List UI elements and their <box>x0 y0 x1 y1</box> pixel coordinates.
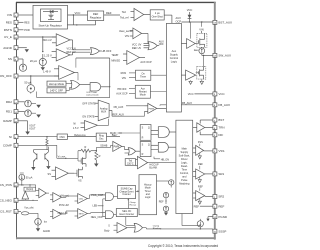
svg-text:20 µA: 20 µA <box>30 59 37 63</box>
svg-text:VCC: VCC <box>75 11 81 15</box>
buffer B2 (SR1 output) <box>193 169 205 179</box>
svg-text:(anti-restart): (anti-restart) <box>87 94 99 97</box>
svg-text:Logic: Logic <box>171 60 178 64</box>
pin VCC (right 3) <box>188 92 226 96</box>
ground arrow diff pair right <box>46 166 50 169</box>
AND gate G9 (neg OCP) <box>101 211 116 219</box>
ground arrow diff pair left <box>31 167 35 170</box>
svg-text:PWM: PWM <box>114 146 120 148</box>
wire Bias output <box>107 134 121 137</box>
svg-text:S: S <box>108 226 110 228</box>
ground arrow RD2 <box>36 105 41 108</box>
pin ON_OFF (left 7) <box>0 74 59 79</box>
svg-text:Control: Control <box>170 56 179 60</box>
wire ON_OFF junction into comparator <box>30 75 54 76</box>
svg-text:Supply: Supply <box>170 53 179 57</box>
svg-text:RSTN: RSTN <box>4 28 12 32</box>
wire SS/HB to PWM comparator <box>96 145 113 151</box>
comparator U2 REF-UV (1.25 V ref) <box>44 49 70 61</box>
svg-text:RES: RES <box>24 20 30 24</box>
ground symbol under MOSFET M2 <box>200 79 203 84</box>
svg-text:Regulator: Regulator <box>90 15 102 19</box>
pass transistor Q inside start-up regulator <box>48 12 54 20</box>
OR gate G4 (AUX OFF) <box>132 40 164 50</box>
wire SW_AUX net <box>202 54 213 67</box>
wire counter link with clamp hiccup label <box>127 199 136 209</box>
AND gate G6 <box>151 142 176 152</box>
current source Iaux <box>194 47 205 53</box>
MOSFET M4 at gm amp output <box>74 167 82 183</box>
svg-text:One-Shot: One-Shot <box>152 14 163 18</box>
flip-flop FF1 <box>140 125 151 141</box>
block NEG OC Event Counter <box>116 209 137 217</box>
wire OCP gates to counters <box>116 197 117 215</box>
wire diff pair bases <box>33 145 48 149</box>
pin RES (left 2) <box>6 20 30 25</box>
pin UVLO (left 4) <box>4 35 18 40</box>
ground symbol under buffer B3 <box>198 199 201 205</box>
driver B (aux low-side) <box>181 70 195 80</box>
pin RD1 (left 9) <box>6 110 25 115</box>
svg-text:Start-Up Regulator: Start-Up Regulator <box>39 24 62 28</box>
svg-text:FB_AUX: FB_AUX <box>114 106 124 109</box>
pin VSS (right 8) <box>204 149 225 153</box>
block Ring Oscillator <box>96 133 106 141</box>
svg-text:CS_NEG: CS_NEG <box>0 199 13 203</box>
pin BST_AUX (right 1) <box>213 20 232 24</box>
ground symbol under driver B <box>189 80 192 84</box>
svg-text:POS_OCP: POS_OCP <box>91 194 103 197</box>
svg-text:VCC UV: VCC UV <box>132 44 142 47</box>
svg-text:R: R <box>142 137 144 140</box>
OR gate G10 clamp blanking <box>127 223 146 232</box>
current source I3 50uA on ON_OFF <box>24 76 34 94</box>
amp A3 (up triangle) <box>22 185 29 200</box>
pin RAMP (left 10) <box>3 119 27 124</box>
comparator U8 PWM main <box>113 141 125 151</box>
wire BST_AUX net <box>181 21 212 38</box>
svg-text:VIN: VIN <box>199 27 203 31</box>
wire mux output REF_AUX <box>109 110 144 116</box>
net label REF between sources <box>159 198 167 204</box>
MOSFET M1 aux high-side (dashed box) <box>197 33 207 47</box>
comparator U5 Vaux sense <box>119 28 148 44</box>
pin FB_AUX (right 4) <box>160 101 230 107</box>
svg-text:Matching: Matching <box>179 183 190 186</box>
net label LEB <box>93 199 104 217</box>
pin RSTN (left 3) <box>4 28 30 33</box>
comparator U11 CS neg threshold <box>50 209 62 218</box>
svg-text:ON STATE: ON STATE <box>82 116 94 119</box>
AND gate G3 with UVLO arm note <box>87 83 111 97</box>
driver A (aux high-side) <box>181 39 197 49</box>
svg-text:PGND: PGND <box>218 215 228 219</box>
current source I6 Ics <box>35 213 48 225</box>
pin CS_POS (left 13) <box>0 183 24 188</box>
wire Vcomp node <box>57 145 78 161</box>
svg-text:REF: REF <box>218 204 224 208</box>
current source I9 <box>163 206 168 211</box>
pin DIF (right 7) <box>200 132 223 138</box>
svg-text:Vaux_sense: Vaux_sense <box>119 30 133 33</box>
svg-text:140°C OFF: 140°C OFF <box>50 89 64 93</box>
pin BST (right 5) <box>200 118 224 124</box>
pin REF (right 11) <box>194 204 225 208</box>
svg-text:RAMP: RAMP <box>3 119 12 123</box>
svg-text:REF: REF <box>194 204 200 208</box>
driver C (main half-bridge) <box>193 123 205 132</box>
block Tsd 150C threshold <box>125 159 135 166</box>
comparator U4 thermal (Tsd) <box>120 8 150 20</box>
svg-text:ON_OFF: ON_OFF <box>0 74 12 78</box>
comparator U12 CBL <box>75 194 106 204</box>
wire UVLO to comparator bus <box>18 36 56 52</box>
svg-text:SS: SS <box>8 57 12 61</box>
OR gate G7 <box>125 148 141 155</box>
comparator U10 CS pos threshold <box>50 193 75 202</box>
AND gate G5 <box>151 127 176 138</box>
svg-text:1.5 V: 1.5 V <box>73 127 79 130</box>
comparator U6 TEMP <box>111 51 152 65</box>
transistor Q1 (diff pair left) <box>33 150 37 167</box>
pin VIN (left 1) <box>7 13 18 18</box>
ground arrow RD1 <box>36 115 41 118</box>
amp A1 NI buffer <box>73 119 109 130</box>
svg-text:VIN: VIN <box>122 77 126 80</box>
svg-text:Timer: Timer <box>140 76 146 79</box>
wire start-up feedback <box>67 14 96 25</box>
svg-text:840 mV: 840 mV <box>42 38 51 42</box>
svg-text:1.49 V: 1.49 V <box>43 70 51 74</box>
pin PGND (right 12) <box>208 215 228 219</box>
inner pass-device box of start-up regulator <box>41 9 62 22</box>
svg-text:MAIN_ON: MAIN_ON <box>110 132 122 135</box>
svg-text:FB_AUX: FB_AUX <box>182 101 192 105</box>
wire CS_NEG with offset oval <box>21 200 38 215</box>
resistor R2 (to ground vertical) <box>95 150 101 164</box>
svg-text:Q: Q <box>148 144 150 147</box>
svg-text:NEG_OCP: NEG_OCP <box>91 216 104 219</box>
svg-text:AGND: AGND <box>3 46 13 50</box>
wire one-shot output AUX OCP <box>164 15 181 23</box>
wire comparator outputs to OR gate (VCC UV / REF UV) <box>67 40 91 55</box>
svg-text:REF: REF <box>198 163 203 166</box>
comparator U7 PWM aux <box>114 103 167 116</box>
svg-text:REF UV: REF UV <box>132 47 142 50</box>
svg-text:NI: NI <box>73 122 76 125</box>
svg-text:TEMP: TEMP <box>111 54 118 57</box>
wire REF output <box>104 11 120 15</box>
svg-text:OCP: OCP <box>176 19 182 23</box>
svg-text:HB OFF: HB OFF <box>102 49 112 53</box>
pin RD2 (left 8) <box>6 100 25 105</box>
svg-text:NEG: NEG <box>79 213 84 215</box>
svg-text:PWM: PWM <box>149 108 155 110</box>
svg-text:VCC: VCC <box>218 92 225 96</box>
svg-text:Blanking: Blanking <box>153 228 162 230</box>
svg-text:Vcs_ofst: Vcs_ofst <box>24 207 34 210</box>
current source I8 <box>163 192 168 197</box>
svg-text:Charge Event: Charge Event <box>119 190 133 193</box>
wire NEG OC counter to clamp OR gate <box>126 217 135 226</box>
buffer B3 (SR2 output) <box>193 191 205 201</box>
svg-text:REF_AUX: REF_AUX <box>112 114 124 117</box>
svg-text:DIF: DIF <box>218 133 223 137</box>
svg-text:Mode: Mode <box>140 93 147 96</box>
pin AGND (left 5) <box>3 46 27 51</box>
svg-text:SS/HB Cap: SS/HB Cap <box>121 188 133 190</box>
svg-text:COMP: COMP <box>3 144 12 148</box>
svg-text:CS_POS: CS_POS <box>0 183 12 187</box>
svg-text:IOUT: IOUT <box>30 127 36 130</box>
wire OFF STATE into analog mux <box>82 102 98 105</box>
svg-text:SS/HB: SS/HB <box>100 145 108 148</box>
current source I2 with ground <box>39 54 46 70</box>
block Rs(int) <box>24 187 36 191</box>
svg-text:UV_E: UV_E <box>4 35 12 39</box>
svg-text:REF: REF <box>198 185 203 188</box>
svg-text:BST: BST <box>218 118 224 122</box>
svg-text:Ics: Ics <box>44 220 48 223</box>
svg-text:HB_ON: HB_ON <box>161 158 170 161</box>
current source I7 <box>157 180 174 188</box>
wire On Timer output to main block <box>151 74 176 76</box>
pin CS_NEG (left 14) <box>0 198 24 203</box>
svg-text:NI: NI <box>9 135 12 139</box>
svg-text:R: R <box>85 146 87 149</box>
svg-text:LEB: LEB <box>93 205 98 208</box>
OR gate G1 (HB OFF) <box>91 48 112 55</box>
block Aux Restart Mode <box>116 85 166 98</box>
pin SSSP (right 13) <box>213 229 227 233</box>
wire Reference between oscillator blocks <box>67 134 96 137</box>
pin SR2 (right 10) <box>205 195 225 199</box>
wire VIN to aux high-side FET <box>199 22 203 33</box>
block 1us One-Shot <box>150 10 164 20</box>
pin COMP (left 12) <box>3 143 57 148</box>
ground arrow at PGND pin <box>206 217 209 222</box>
svg-text:1.25 V: 1.25 V <box>44 53 52 57</box>
analog MUX <box>98 100 109 121</box>
MOSFET M2 aux low-side <box>196 66 206 79</box>
svg-text:VCC: VCC <box>187 8 193 12</box>
wire main block bottom to SSSP <box>182 214 200 226</box>
svg-text:REF UV: REF UV <box>67 51 77 54</box>
transistor Q2 (diff pair right) <box>37 150 49 166</box>
svg-text:VS: VS <box>78 179 82 182</box>
pin TRN (right 6) <box>205 126 225 130</box>
amp A4 AVG <box>36 188 49 197</box>
svg-text:Hiccup: Hiccup <box>130 204 137 206</box>
svg-text:Hiccup Mode: Hiccup Mode <box>49 82 65 86</box>
VCC bootstrap diode to BST_AUX <box>187 8 193 22</box>
svg-text:50 µA: 50 µA <box>24 81 31 85</box>
svg-text:VCC: VCC <box>188 92 194 96</box>
svg-text:VIN: VIN <box>7 13 12 17</box>
pin SR1 (right 9) <box>205 172 225 176</box>
svg-text:REF: REF <box>106 11 112 15</box>
current source RD2 <box>25 100 36 107</box>
svg-text:Counter: Counter <box>122 193 130 196</box>
svg-text:VCOMP: VCOMP <box>58 155 66 158</box>
wire enable-logic routing <box>37 58 110 98</box>
svg-text:Body: Body <box>104 230 110 232</box>
svg-text:SR1: SR1 <box>218 172 224 176</box>
svg-text:Tsd_ref: Tsd_ref <box>120 16 129 20</box>
svg-text:BST_AUX: BST_AUX <box>218 21 232 25</box>
svg-text:Event Counter: Event Counter <box>119 213 134 216</box>
svg-text:CS_RST: CS_RST <box>0 210 12 214</box>
wire VIN to Start-Up Regulator <box>18 14 33 16</box>
chip outline border <box>16 2 216 240</box>
svg-text:RON: RON <box>121 72 127 75</box>
svg-text:AUX OCP: AUX OCP <box>116 93 128 96</box>
svg-text:NEG OC: NEG OC <box>122 211 131 213</box>
svg-text:UVLO arm: UVLO arm <box>87 91 98 94</box>
ground arrow with AGND label <box>36 225 51 233</box>
net label FSS <box>198 141 203 146</box>
comparator U3 enable (1.49 V ref) <box>43 66 74 80</box>
block Hiccup Mode Timer and Logic <box>139 175 157 215</box>
svg-text:VSS: VSS <box>218 149 224 153</box>
block Aux Supply Control Logic <box>166 23 181 112</box>
current source I4 near SSSP <box>197 219 203 227</box>
svg-text:OFF: OFF <box>159 43 164 46</box>
svg-text:MUX: MUX <box>101 111 107 114</box>
svg-text:POS LIM: POS LIM <box>59 204 69 207</box>
svg-text:AGND: AGND <box>43 230 50 233</box>
svg-text:R: R <box>99 155 101 158</box>
svg-text:OSC: OSC <box>59 136 65 139</box>
wire MAIN_ON input to FF1 <box>110 132 140 135</box>
svg-text:SS: SS <box>48 173 52 176</box>
svg-text:Copyright © 2010, Texas Instru: Copyright © 2010, Texas Instruments Inco… <box>148 244 218 248</box>
block REF Regulator <box>88 11 104 21</box>
diode D1 inside start-up regulator <box>43 10 58 13</box>
block Hiccup Mode <box>47 81 66 86</box>
svg-text:SR2: SR2 <box>218 195 224 199</box>
svg-text:1 µs: 1 µs <box>155 11 161 15</box>
ground arrow RAMP <box>25 132 30 135</box>
svg-text:SSSP: SSSP <box>218 229 226 233</box>
resistor R1 (comp network horizontal) <box>78 146 96 152</box>
svg-text:REF: REF <box>159 200 164 203</box>
comparator U9 hiccup blank <box>136 156 176 169</box>
svg-text:Tsd: Tsd <box>122 10 127 14</box>
comparator U1 VCC-UV (840 mV ref) <box>42 34 70 46</box>
svg-text:AUX OCP: AUX OCP <box>140 61 152 64</box>
pin NI (left 11) <box>9 135 57 140</box>
svg-text:Reference: Reference <box>74 134 86 137</box>
ground arrow under current sources <box>164 212 168 216</box>
svg-text:BLANK: BLANK <box>149 166 157 169</box>
svg-text:FB_AUX: FB_AUX <box>218 103 230 107</box>
svg-text:Aux: Aux <box>172 49 177 53</box>
pin SS (left 6) <box>8 57 23 62</box>
svg-text:R: R <box>142 153 144 156</box>
svg-text:HB OFF: HB OFF <box>117 88 127 91</box>
comparator U13 NEG <box>62 209 106 219</box>
pin CS_RTN (left 15) <box>0 209 21 214</box>
svg-text:OFF STATE: OFF STATE <box>82 102 96 105</box>
net label REF above buffer B2 <box>198 163 203 170</box>
current source I-SS 20uA <box>19 59 37 71</box>
svg-text:VIN: VIN <box>125 35 129 38</box>
svg-text:Logic: Logic <box>145 196 152 199</box>
wire HB label at FF outputs <box>154 157 169 162</box>
ground arrow under R2 <box>94 164 99 167</box>
wire REF regulator enable from below <box>95 21 97 25</box>
wire VCC from start-up regulator to REF regulator <box>68 11 88 15</box>
svg-text:150°C: 150°C <box>127 164 134 166</box>
block Main Supply Soft-Start Driver Logic Dead-Time Control and Pulse Matching <box>176 120 193 213</box>
block SS/HB Cap Charge Event Counter <box>118 186 136 199</box>
block Start-Up Regulator <box>33 5 68 29</box>
wire event counter to hiccup block arrow <box>136 190 139 192</box>
wire CS_POS distribution <box>22 184 36 190</box>
OR gate G2 <box>66 80 90 90</box>
svg-text:MIN/SD: MIN/SD <box>111 59 120 62</box>
current source I5 on CS_POS <box>19 173 33 186</box>
MOSFET M3 comp clamp <box>78 151 86 167</box>
buffer B1 (VSS output) <box>193 145 204 155</box>
svg-text:FSS: FSS <box>198 141 203 144</box>
current source RD1 <box>25 110 36 117</box>
block OSC <box>57 134 67 139</box>
ground symbol under buffer B2 <box>198 177 201 183</box>
svg-text:RES: RES <box>6 21 12 25</box>
ground symbol at AGND pin <box>25 49 29 52</box>
net labels POS LIM / NEG LIM <box>58 204 69 215</box>
pin SW_AUX (right 2) <box>213 53 231 57</box>
amp A2 gm error amp <box>48 167 74 180</box>
block On Timer <box>121 70 167 80</box>
svg-text:RD2: RD2 <box>6 100 12 104</box>
svg-text:TRN: TRN <box>218 126 224 130</box>
svg-text:Iaux: Iaux <box>194 49 199 52</box>
wire ON STATE into analog mux <box>82 116 98 119</box>
AND gate G8 (pos OCP) <box>101 193 118 201</box>
svg-text:Rs(int): Rs(int) <box>26 188 33 191</box>
block 140C OFF <box>47 88 66 93</box>
svg-text:POR: POR <box>24 28 30 32</box>
comparator U14 clamp sense <box>104 223 127 233</box>
svg-text:SW_AUX: SW_AUX <box>218 54 231 58</box>
svg-text:RD1: RD1 <box>6 110 12 114</box>
wire clamp blanking to SSSP <box>146 225 212 231</box>
flip-flop FF2 <box>140 142 151 157</box>
svg-text:Q: Q <box>148 127 150 130</box>
svg-text:50 µA: 50 µA <box>26 176 33 179</box>
ground symbol under buffer B1 <box>198 153 201 158</box>
resistor R3 vertical near NI <box>46 136 48 150</box>
RAMP mirror IOUT arrows <box>28 121 36 132</box>
net label REF above buffer B3 <box>198 185 203 191</box>
